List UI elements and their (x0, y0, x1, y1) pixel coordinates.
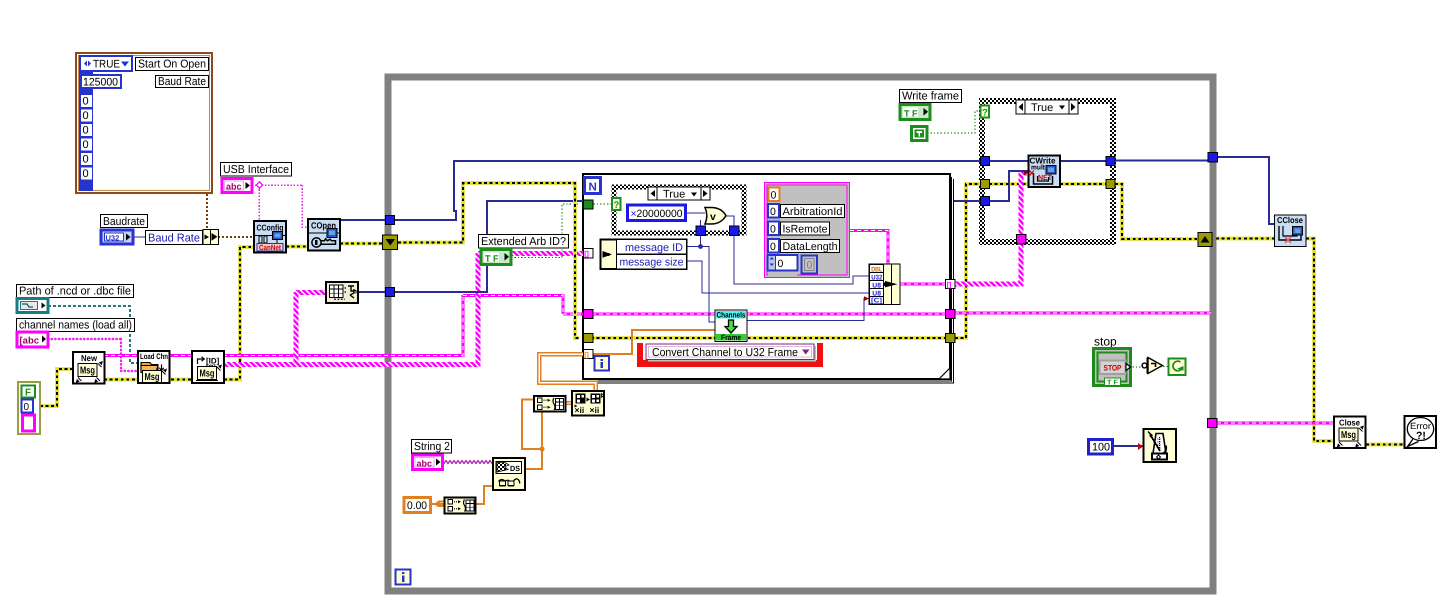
terminal for loop count N (585, 178, 601, 194)
svg-text:Msg: Msg (80, 366, 95, 377)
tunnel blue case bottom right (730, 226, 740, 236)
tunnel blue CWrite case upper left (981, 157, 990, 166)
svg-text:Msg: Msg (1341, 430, 1356, 441)
svg-text:message size: message size (620, 257, 684, 269)
svg-text:T F: T F (1107, 379, 1119, 386)
cluster constant CAN frame (ArbitrationId/IsRemote/DataLength) (765, 183, 850, 278)
function index array 2D (572, 391, 604, 416)
svg-text:USB Interface: USB Interface (223, 164, 289, 176)
svg-text:abc: abc (417, 458, 433, 468)
function Not gate (1142, 358, 1162, 374)
svg-text:DBL: DBL (871, 266, 882, 273)
terminal loop condition continue (1169, 359, 1186, 376)
wire: yellow error P[ID]Msg up to CConfig (224, 247, 254, 380)
svg-text:×ii: ×ii (575, 405, 585, 415)
wire: yellow error COpen to left shift register (340, 241, 386, 245)
svg-text:New: New (81, 353, 97, 363)
function build array 1 (445, 498, 476, 514)
tunnel orange [] on for loop left (584, 350, 594, 359)
svg-text:Baud Rate: Baud Rate (148, 232, 200, 244)
case structure (inner, in for loop) (613, 186, 746, 235)
icon CConfig CanNet (254, 221, 286, 253)
wire: orange 0.00 to build array 1 (431, 502, 444, 507)
function build array 2 (534, 396, 566, 412)
label channel names (load all) (17, 319, 135, 332)
tunnel blue on while loop left (COpen) (386, 216, 395, 225)
wire: yellow error into for loop (398, 183, 579, 338)
wire: yellow error across for loop (591, 336, 946, 340)
svg-text:20000000: 20000000 (637, 208, 683, 220)
svg-text:100: 100 (1092, 442, 1110, 454)
wire: yellow error cluster const to NewMsg to LoadChn to P[ID] (40, 369, 224, 406)
svg-text:Path of .ncd or .dbc file: Path of .ncd or .dbc file (19, 286, 131, 298)
wire: pink string USB Interface to CConfig and COpen (252, 185, 308, 227)
wire: yellow error for loop to CWrite case (955, 184, 981, 338)
svg-text:stop: stop (1094, 335, 1117, 349)
svg-text:ArbitrationId: ArbitrationId (783, 206, 843, 218)
tunnel selector ? on CWrite case (981, 106, 990, 119)
icon wait until next ms multiple (metronome) (1144, 429, 1177, 462)
function unbundle by name message ID / message size (601, 240, 687, 270)
svg-text:0: 0 (770, 224, 776, 236)
svg-text:Baud Rate: Baud Rate (158, 76, 206, 88)
wire: blue for loop to CWrite case lower tunnel (954, 157, 1274, 224)
svg-text:abc: abc (226, 182, 242, 192)
wire: orange scaled data into for loop (592, 330, 715, 354)
tunnel magenta CWrite case bottom (1017, 235, 1027, 245)
wire: yellow error CConfig-COpen (286, 244, 308, 248)
function bundle cluster (DBL U32 U8 U8 C) (869, 264, 900, 305)
tunnel olive error on for loop right (946, 334, 956, 343)
terminal for loop iteration i (595, 356, 610, 371)
svg-text:0: 0 (83, 139, 89, 151)
numeric constant x20000000 (628, 205, 686, 221)
icon spreadsheet string to array DS (493, 458, 525, 490)
svg-text:DataLength: DataLength (783, 241, 838, 253)
svg-text:Close: Close (1339, 418, 1360, 428)
wire: thick pink frames array for loop to CWrite case (955, 173, 1028, 284)
label String 2 (412, 440, 452, 454)
svg-text:T F: T F (904, 108, 918, 118)
svg-text:U32: U32 (871, 274, 882, 281)
tunnel selector ? on case left (612, 198, 621, 211)
svg-text:Extended Arb ID?: Extended Arb ID? (481, 236, 566, 248)
svg-text:0: 0 (807, 260, 813, 272)
wire: yellow error out of while loop to CClose to CloseMsg to Error (1216, 239, 1404, 445)
svg-text:T F: T F (485, 253, 499, 263)
svg-text:message ID: message ID (625, 242, 683, 254)
terminal TF Extended Arb ID (481, 250, 511, 265)
wire: thick pink message array P[ID] to grid icon and for-loop [] tunnel (224, 253, 584, 367)
svg-text:NET: NET (1038, 173, 1052, 182)
numeric constant 100 (1089, 440, 1113, 455)
svg-text:[C]: [C] (871, 298, 882, 305)
numeric constant 125000 (81, 75, 121, 88)
svg-text:[]: [] (584, 250, 589, 258)
while loop (388, 77, 1213, 591)
tunnel green on for loop left (584, 200, 594, 209)
svg-text:?!: ?! (1416, 430, 1426, 442)
svg-text:Msg: Msg (200, 369, 215, 380)
svg-text:Channels: Channels (717, 310, 747, 319)
svg-text:channel names (load all): channel names (load all) (19, 320, 132, 332)
svg-text:U8: U8 (872, 282, 881, 289)
numeric constant 0.00 (404, 498, 431, 513)
svg-text:CanNet: CanNet (259, 243, 281, 252)
svg-text:[]: [] (584, 351, 589, 359)
wire: orange DS output to build array 2 (522, 400, 542, 470)
wire: orange 2D array build2 to index icon (539, 354, 595, 403)
svg-text:U8: U8 (872, 290, 881, 297)
icon P[ID] Msg (192, 351, 224, 383)
tunnel auto-index [] messages on for loop left (584, 249, 594, 259)
tunnel blue case bottom left (696, 226, 706, 236)
terminal U32 Baudrate control (101, 230, 133, 244)
svg-text:TRUE: TRUE (93, 59, 120, 71)
case structure (upper, write frame) (981, 100, 1115, 244)
node red coercion dot on bundle C input (864, 296, 869, 301)
svg-text:0: 0 (83, 110, 89, 122)
svg-text:mult: mult (1031, 164, 1046, 172)
svg-text:0.00: 0.00 (407, 500, 427, 512)
label Baud Rate wired (146, 231, 203, 245)
wire: blue message ID to case tunnel and Channels icon (686, 213, 869, 322)
node: junction dot on USB wire (256, 182, 263, 189)
icon New Msg (73, 352, 105, 384)
terminal stop button (1094, 349, 1131, 387)
tunnel blue junction on while loop right (1208, 153, 1218, 163)
wire: pink messages out of while loop to CloseMsg (1217, 422, 1334, 425)
tunnel blue CWrite case lower left (981, 197, 990, 206)
terminal path control (17, 299, 48, 313)
terminal abc USB Interface (222, 179, 252, 193)
boolean constant T (912, 127, 928, 141)
svg-text:U32: U32 (106, 233, 120, 242)
svg-text:Start On Open: Start On Open (138, 59, 206, 71)
svg-text:?: ? (982, 107, 988, 118)
icon channel list grid (326, 282, 358, 303)
wire: green dotted stop to Not to loop condition (1129, 366, 1143, 368)
node: junction dot 0.00 (435, 501, 440, 506)
wire: blue U32 Baudrate to bundle-by-name (133, 236, 203, 238)
svg-text:0: 0 (770, 241, 776, 253)
icon COpen (308, 219, 340, 251)
svg-text:0: 0 (83, 168, 89, 180)
svg-text:True: True (663, 189, 685, 201)
svg-text:0: 0 (778, 258, 784, 270)
svg-text:v: v (710, 211, 716, 223)
svg-text:Baudrate: Baudrate (103, 216, 145, 228)
svg-text:125000: 125000 (83, 76, 118, 88)
wire: pink cluster constant to bundle (850, 231, 888, 265)
wire: pink frame cluster bundle to for-loop tunnel (900, 283, 946, 286)
svg-text:[]: [] (947, 281, 952, 289)
svg-text:?: ? (614, 200, 620, 211)
wire: green boolean Extended Arb ID to for-loop tunnel (511, 204, 580, 258)
enum constant TRUE (80, 56, 132, 71)
svg-text:STOP: STOP (1104, 364, 1123, 373)
label Baudrate (101, 215, 148, 228)
tunnel magenta on while loop right (1208, 419, 1218, 428)
terminal while loop iteration i (396, 570, 411, 585)
svg-text:IsRemote: IsRemote (783, 223, 828, 235)
label Extended Arb ID? (479, 235, 569, 249)
wire: yellow error CWrite case to right shift register (1115, 184, 1197, 239)
tunnel olive CWrite case right (1106, 180, 1115, 189)
label Path of .ncd or .dbc file (17, 285, 134, 298)
svg-text:String 2: String 2 (414, 441, 450, 453)
wire: orange build array 1 to DS (476, 486, 493, 504)
tunnel magenta strings on for loop right (946, 310, 956, 319)
svg-text:×ii: ×ii (590, 405, 600, 415)
svg-text:N: N (589, 182, 597, 194)
icon Channels to Frame (715, 310, 747, 342)
function Or gate (705, 208, 726, 225)
for loop N (583, 174, 954, 383)
terminal abc String 2 (413, 455, 443, 470)
svg-text:[abc: [abc (20, 336, 40, 347)
node: junction dot DS output riser (539, 446, 544, 451)
wire: green boolean inside for loop to case selector (590, 203, 612, 205)
wire: blue 100 to wait (1113, 445, 1143, 447)
node: red coercion dot on wait input (1138, 443, 1143, 450)
node: junction dot message ID (698, 244, 703, 249)
wire: pink dotted channel names array to LoadChn (48, 338, 121, 340)
terminal TF Write frame (900, 105, 930, 120)
tunnel olive CWrite case left (981, 180, 990, 189)
wire: yellow error inside CWrite case (989, 182, 1106, 186)
svg-text:Convert Channel to U32 Frame: Convert Channel to U32 Frame (652, 347, 798, 359)
tunnel auto-index [] frames on for loop right (946, 280, 956, 289)
wire: teal path to LoadChn (48, 306, 138, 363)
shift register left (error) (383, 235, 398, 250)
svg-text:F: F (25, 388, 31, 399)
svg-text:0: 0 (83, 154, 89, 166)
wire: blue COpen handle long wire above for loop to CWrite case (394, 161, 981, 220)
cluster constant Start On Open / Baud Rate (76, 53, 212, 193)
wire: pink array of strings through for loop (592, 313, 1211, 314)
svg-text:0: 0 (771, 190, 777, 202)
wire: pink message cluster NewMsg to for-loop tunnel (104, 294, 584, 357)
svg-text:DS: DS (510, 464, 520, 473)
node red coercion dot on CWrite frames input (1024, 170, 1029, 175)
ring constant Convert Channel to U32 Frame with red frame (637, 343, 823, 367)
svg-text:CClose: CClose (1277, 215, 1303, 225)
svg-text:True: True (1031, 102, 1053, 114)
svg-text:Frame: Frame (721, 333, 742, 342)
label Write frame (900, 90, 962, 103)
svg-text:0: 0 (24, 402, 30, 413)
icon simple error handler (1405, 416, 1437, 448)
wire: blue channel-list icon into while loop, up to for-loop edge (358, 201, 583, 292)
svg-text:0: 0 (83, 96, 89, 108)
label USB Interface (221, 163, 292, 177)
tunnel blue CWrite case right (1106, 157, 1115, 166)
terminal array of strings [abc] (17, 332, 48, 347)
svg-text:Write frame: Write frame (902, 91, 959, 103)
label Start On Open (136, 58, 209, 71)
svg-text:0: 0 (83, 125, 89, 137)
wire: purple squiggle String 2 to DS (443, 461, 493, 464)
label Baud Rate (156, 76, 209, 89)
tunnel olive error on for loop left (584, 334, 594, 343)
array of numeric constants 0 (81, 95, 92, 180)
cluster constant error (F 0 empty-string) (18, 382, 40, 434)
wire: blue COpen handle to while tunnel (340, 219, 386, 221)
icon CClose (1275, 215, 1307, 247)
wire: brown cluster constant to bundle-by-name (207, 194, 254, 237)
icon CWrite mult NET (1029, 156, 1061, 188)
svg-text:Msg: Msg (145, 372, 160, 383)
wire: green dotted T constant to case selector (927, 111, 980, 133)
tunnel blue on while loop left (channel list) (386, 288, 395, 297)
shift register right (error) (1198, 233, 1212, 247)
icon Close Msg (1334, 417, 1366, 449)
tunnel magenta strings on for loop left (584, 310, 594, 319)
icon Load Chn Msg (138, 351, 170, 383)
svg-text:Load Chn: Load Chn (140, 352, 168, 361)
function bundle by name (203, 230, 219, 245)
svg-text:0: 0 (770, 206, 776, 218)
